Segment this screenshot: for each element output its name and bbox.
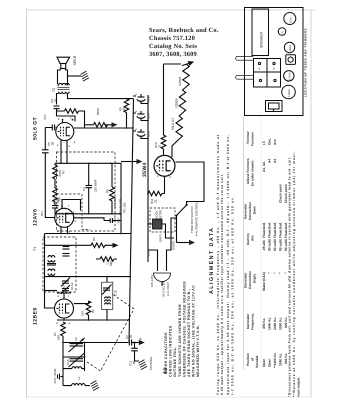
screen bleeder resistor to B- <box>94 123 108 128</box>
svg-text:(high): (high) <box>253 274 257 283</box>
gang link dashed <box>84 295 134 372</box>
svg-text:4: 4 <box>157 175 159 178</box>
svg-text:MEASURED WITH V.T.V.M.: MEASURED WITH V.T.V.M. <box>196 325 200 377</box>
svg-text:MOTOR: MOTOR <box>159 210 163 221</box>
svg-text:Generator: Generator <box>244 272 248 288</box>
svg-text:50L6: 50L6 <box>289 17 292 23</box>
svg-text:6: 6 <box>74 141 76 144</box>
svg-text:+: + <box>134 110 138 112</box>
wire plate loop 50L6 <box>57 116 76 122</box>
sheet edge right <box>310 10 312 397</box>
svg-text:1400 Kc.: 1400 Kc. <box>273 317 277 330</box>
osc coil L3 <box>72 367 82 369</box>
svg-text:Float.Gnd.: Float.Gnd. <box>262 222 266 238</box>
output transformer T2 <box>52 83 70 93</box>
svg-text:A1 A2: A1 A2 <box>70 282 74 290</box>
svg-text:22: 22 <box>158 144 162 148</box>
svg-text:2: 2 <box>58 295 60 298</box>
dashed can edge near 12AV6 <box>82 194 90 230</box>
svg-text:**Balance at 1600 Kc. by rocki: **Balance at 1600 Kc. by rocking variabl… <box>292 151 296 397</box>
svg-text:12AV6: 12AV6 <box>288 72 291 80</box>
svg-text:B-: B- <box>139 337 143 340</box>
gang cap C1A <box>66 353 85 367</box>
svg-text:PL: PL <box>281 30 284 34</box>
svg-text:.002: .002 <box>117 218 121 224</box>
svg-text:ARE TAKEN FROM SOCKET PRONGS T: ARE TAKEN FROM SOCKET PRONGS TO B-, <box>187 288 191 377</box>
antenna hank connector <box>61 376 64 378</box>
svg-text:Open: Open <box>262 359 266 367</box>
svg-text:50 uufd.: 50 uufd. <box>279 238 283 251</box>
svg-text:50L6 GT: 50L6 GT <box>171 118 175 130</box>
svg-text:35W4: 35W4 <box>289 44 292 51</box>
svg-text:C8C: C8C <box>147 131 151 137</box>
svg-text:(in order shown): (in order shown) <box>251 161 255 186</box>
svg-text:Float.Gnd.: Float.Gnd. <box>279 222 283 238</box>
svg-text:TUBE SOCKETS ARE VIEWED FROM: TUBE SOCKETS ARE VIEWED FROM <box>178 304 182 377</box>
heater string 12AV6/12BE6/50L6 <box>176 64 189 139</box>
wire T2 secondary top <box>58 82 68 86</box>
tube circle V2 <box>284 71 294 81</box>
wire cathode bus y320 <box>57 319 130 321</box>
svg-text:7: 7 <box>68 295 70 298</box>
svg-text:T1: T1 <box>33 247 37 251</box>
tube 50L6GT V3 <box>56 122 74 140</box>
svg-text:Trimmer: Trimmer <box>246 130 250 144</box>
svg-text:OUTSIDE FOIL.: OUTSIDE FOIL. <box>173 346 177 377</box>
sheet edge top <box>27 9 316 11</box>
pin number specks <box>57 117 174 325</box>
svg-text:A1, A2,: A1, A2, <box>262 161 266 172</box>
T1 trimmers A1 A2 <box>61 278 74 295</box>
filter cap C8A <box>133 110 151 121</box>
wire T2 primary right to B+ rail <box>68 94 134 99</box>
wire T2 primary left lead to C9 <box>57 94 59 105</box>
speaker SPKR <box>57 55 77 68</box>
wire voice coil to ground <box>68 75 82 77</box>
svg-text:Generator: Generator <box>244 203 248 219</box>
filter cap C8B <box>133 93 151 104</box>
resistor R6 <box>53 188 58 202</box>
svg-text:ANT. HANK: ANT. HANK <box>53 368 57 383</box>
table top rule <box>243 116 245 370</box>
svg-text:A.C. ONLY: A.C. ONLY <box>166 282 170 296</box>
svg-text:″: ″ <box>268 272 272 274</box>
tube 12BE6 V1 <box>55 299 74 318</box>
svg-text:Catalog No. Sets: Catalog No. Sets <box>149 43 197 50</box>
resistor R10 22 <box>161 135 166 149</box>
couplate dashed box PC-150 <box>57 152 116 231</box>
svg-text:Variable: Variable <box>255 355 259 368</box>
svg-text:PAPER CAPACITORS: PAPER CAPACITORS <box>164 332 168 377</box>
svg-text:2: 2 <box>58 118 60 121</box>
svg-text:50 uufd.: 50 uufd. <box>268 238 272 251</box>
capacitor C10 <box>52 205 58 207</box>
heater string arrow <box>181 59 195 68</box>
tube circle V1 <box>282 85 296 99</box>
svg-text:1000 Kc.: 1000 Kc. <box>279 317 283 330</box>
svg-text:UNDERSIDE OF CHASSIS. VOLTAGE: UNDERSIDE OF CHASSIS. VOLTAGE READINGS <box>182 281 186 377</box>
svg-text:C8B: C8B <box>147 96 151 102</box>
svg-text:● AUTOMATIC CONTROL: ● AUTOMATIC CONTROL <box>195 202 199 236</box>
svg-text:3: 3 <box>75 220 77 223</box>
AC plug <box>158 262 167 271</box>
svg-text:1640 Kc.: 1640 Kc. <box>268 317 272 330</box>
filter cap C8C <box>133 128 151 139</box>
C11 to chassis <box>134 343 136 349</box>
35W4 plate/cathode wires <box>162 176 165 193</box>
svg-text:SPKR: SPKR <box>73 55 77 65</box>
svg-text:Approximate input for 0.05 wat: Approximate input for 0.05 watt output: … <box>226 134 230 395</box>
svg-text:R5: R5 <box>106 189 110 193</box>
svg-text:Sears, Roebuck and Co.: Sears, Roebuck and Co. <box>149 27 219 34</box>
power cord wires <box>148 250 158 262</box>
svg-text:BLK: BLK <box>147 250 151 256</box>
svg-text:LOCATION OF TUBES AND TRIMMERS: LOCATION OF TUBES AND TRIMMERS <box>304 28 308 97</box>
pilot lamp circle <box>278 28 286 36</box>
svg-text:Connection: Connection <box>248 202 252 220</box>
svg-text:.05: .05 <box>51 141 55 146</box>
resistor R8 (hum filter) <box>65 109 79 114</box>
svg-text:.02: .02 <box>54 98 58 103</box>
svg-text:35W4: 35W4 <box>142 162 148 177</box>
svg-text:(low): (low) <box>253 206 257 214</box>
capacitor C4 220MMF <box>86 185 93 187</box>
svg-text:Ant.: Ant. <box>251 235 255 241</box>
wire grid feed long vertical <box>45 128 54 218</box>
L1 antenna coil <box>72 384 86 386</box>
svg-text:5: 5 <box>69 145 71 148</box>
bottom bus B- <box>63 342 128 344</box>
svg-text:Function: Function <box>251 132 255 146</box>
svg-text:PC-150: PC-150 <box>123 202 127 213</box>
svg-text:3607, 3608, 3609: 3607, 3608, 3609 <box>149 51 197 58</box>
ground (speaker frame) <box>81 71 90 81</box>
speaker rectangle <box>252 9 269 56</box>
svg-text:50V: 50V <box>40 211 44 216</box>
svg-text:5: 5 <box>57 230 59 233</box>
svg-text:ALIGNMENT DATA: ALIGNMENT DATA <box>209 227 215 294</box>
oscillator box C1B <box>102 282 113 309</box>
resistor R7 <box>53 165 58 179</box>
svg-text:C4: C4 <box>82 187 86 191</box>
grid capacitor C6 <box>51 125 53 131</box>
svg-text:+: + <box>134 93 138 95</box>
wire screen to rail <box>74 127 133 129</box>
capacitor C3 .002 <box>109 218 111 223</box>
svg-text:R2: R2 <box>91 309 95 313</box>
svg-text:7: 7 <box>68 205 70 208</box>
C2 cap and B- arrow <box>128 340 130 346</box>
svg-text:50 uufd.: 50 uufd. <box>273 238 277 251</box>
12BE6 top wire <box>57 293 71 299</box>
svg-text:Frequency: Frequency <box>251 313 255 330</box>
dial rect <box>266 101 283 112</box>
svg-text:12BE6: 12BE6 <box>33 307 39 325</box>
title block <box>149 27 219 58</box>
capacitor C9 <box>54 105 60 107</box>
svg-text:MEG: MEG <box>109 259 113 267</box>
svg-text:C1A: C1A <box>66 359 70 365</box>
svg-text:GREY: GREY <box>159 234 163 242</box>
wire couplate bottom rail <box>55 213 121 215</box>
svg-text:I.F.: I.F. <box>262 141 266 145</box>
gang cap A3 <box>69 337 85 352</box>
svg-text:Connection: Connection <box>248 271 252 289</box>
svg-text:WHITE: WHITE <box>172 241 176 250</box>
chassis outline box <box>245 8 304 116</box>
12AV6 plate wire to C3 <box>70 214 105 221</box>
clock motor dashed box <box>150 208 175 232</box>
svg-text:100V: 100V <box>62 285 66 292</box>
svg-text:220: 220 <box>122 107 126 112</box>
svg-text:CHASSIS: CHASSIS <box>149 357 153 370</box>
svg-text:T2: T2 <box>52 88 56 92</box>
bus A <box>45 233 132 235</box>
resistor R9 220 ohm <box>124 99 129 113</box>
svg-text:Stator (C1A): Stator (C1A) <box>262 272 266 291</box>
clock motor wires <box>148 224 166 232</box>
svg-text:3: 3 <box>57 144 59 147</box>
svg-text:5: 5 <box>170 176 172 179</box>
svg-text:A3: A3 <box>74 337 78 341</box>
wire row <box>63 356 85 358</box>
svg-text:A3: A3 <box>273 159 277 163</box>
wire speaker leads <box>58 69 68 85</box>
svg-text:A4: A4 <box>268 159 272 163</box>
svg-text:68 MEG: 68 MEG <box>113 196 117 208</box>
svg-text:22K: 22K <box>81 311 85 316</box>
sheet edge left <box>26 8 28 398</box>
tube 12AV6 V2 <box>55 208 74 227</box>
tube circle V4 <box>284 13 296 25</box>
svg-text:.05: .05 <box>129 334 133 339</box>
resistor R3 3.3 MEG <box>100 257 114 262</box>
table header rule <box>260 116 262 370</box>
svg-text:A2: A2 <box>273 66 276 70</box>
svg-text:12AV6: 12AV6 <box>33 209 39 226</box>
svg-text:50V: 50V <box>43 114 47 119</box>
svg-text:″: ″ <box>279 272 283 274</box>
svg-text:8: 8 <box>57 322 59 325</box>
svg-text:33: 33 <box>154 199 158 203</box>
heater wire from arrow down <box>163 64 165 133</box>
svg-text:Check point: Check point <box>279 183 283 203</box>
resistor R1 680 <box>61 322 66 336</box>
svg-text:+: + <box>134 128 138 130</box>
svg-text:CURVED LINE INDICATES: CURVED LINE INDICATES <box>169 325 173 377</box>
svg-text:Generator: Generator <box>246 313 250 329</box>
svg-text:*Disconnect antenna hank from: *Disconnect antenna hank from ant. coil … <box>288 156 292 397</box>
svg-text:680: 680 <box>57 335 61 340</box>
svg-text:C8A: C8A <box>147 113 151 119</box>
tube 35W4 V4 <box>154 155 175 176</box>
B+ rail <box>129 99 134 344</box>
svg-text:455 Kc.: 455 Kc. <box>262 318 266 329</box>
svg-text:TONE OFF SWITCH: TONE OFF SWITCH <box>190 206 194 233</box>
resistor R2 22K <box>86 301 91 315</box>
svg-text:Open: Open <box>268 359 272 367</box>
svg-text:SPEAKER: SPEAKER <box>260 31 264 48</box>
svg-text:Position: Position <box>246 353 250 366</box>
on-off switch <box>176 215 178 217</box>
svg-text:I-f 2000 uv; B-f at 1600 Kc, 2: I-f 2000 uv; B-f at 1600 Kc, 200 uv; at … <box>231 195 235 395</box>
svg-text:1000 Kc.: 1000 Kc. <box>279 353 283 366</box>
svg-text:WITH NO SIGNAL. LINE VOLTAGE A: WITH NO SIGNAL. LINE VOLTAGE AT 117V.AC <box>192 285 196 377</box>
right gang vertical <box>84 343 86 372</box>
B- bus vertical <box>147 95 149 262</box>
svg-text:60 CYCLES: 60 CYCLES <box>162 281 166 297</box>
svg-text:Float.Gnd.: Float.Gnd. <box>268 222 272 238</box>
svg-text:Float.Gnd.: Float.Gnd. <box>273 222 277 238</box>
tube circle V3 <box>284 42 294 52</box>
svg-text:6: 6 <box>69 322 71 325</box>
svg-text:of: of <box>251 357 255 361</box>
IF / gang block <box>254 59 281 88</box>
svg-text:0.05 watt output – approximate: 0.05 watt output – approximately 9.4 vol… <box>220 173 224 395</box>
wire 12BE6 top <box>45 290 58 292</box>
wire 12BE6 grid left <box>45 277 55 308</box>
resistor R5 68MEG <box>110 187 115 201</box>
12AV6 pin stubs to bus <box>61 227 68 234</box>
svg-text:.05 ufd.: .05 ufd. <box>262 240 266 251</box>
svg-text:mum output.: mum output. <box>297 377 301 397</box>
electrolytic square <box>286 55 296 65</box>
sheet edge bottom <box>27 396 311 398</box>
50L6 pin stubs <box>61 121 67 164</box>
svg-text:R4: R4 <box>92 237 96 241</box>
svg-text:Ant.: Ant. <box>273 139 277 145</box>
T1 coils <box>47 247 70 276</box>
svg-text:″: ″ <box>273 272 277 274</box>
svg-text:Adjust Trimmers: Adjust Trimmers <box>246 158 250 184</box>
AVC bus <box>45 276 132 278</box>
12AV6 grid cap loop <box>62 200 81 211</box>
svg-text:Dummy: Dummy <box>246 233 250 245</box>
wire grid return bus <box>55 163 121 220</box>
resistor R11 33 <box>148 191 162 196</box>
svg-text:12BE6: 12BE6 <box>288 89 291 97</box>
control shaft bottom <box>236 76 254 80</box>
svg-text:**1400 Kc.: **1400 Kc. <box>273 352 277 368</box>
svg-text:105-125V: 105-125V <box>150 274 154 287</box>
IF transformer T1 dashed can <box>43 237 76 292</box>
svg-text:50L6 GT: 50L6 GT <box>33 117 39 140</box>
svg-text:12AV6: 12AV6 <box>178 76 182 86</box>
bus B with B- arrow <box>45 244 92 246</box>
svg-text:.05: .05 <box>132 360 136 365</box>
svg-text:L1: L1 <box>77 376 81 380</box>
svg-text:Osc.: Osc. <box>268 138 272 145</box>
svg-text:220 MMF: 220 MMF <box>94 179 98 192</box>
control shaft top <box>236 56 254 60</box>
svg-text:R7: R7 <box>62 170 66 174</box>
svg-text:A1: A1 <box>258 66 261 70</box>
B- arrow at grid bus <box>130 159 143 164</box>
svg-text:12BE6: 12BE6 <box>175 98 179 108</box>
svg-text:500K: 500K <box>96 108 100 115</box>
svg-text:Chassis 757.120: Chassis 757.120 <box>149 35 195 42</box>
